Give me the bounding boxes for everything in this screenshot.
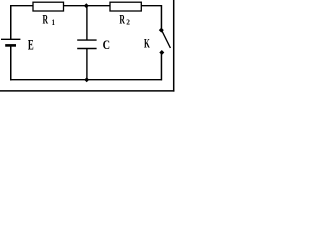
switch K blade [162, 31, 170, 48]
capacitor C bottom plate [77, 48, 96, 50]
wire right upper [160, 5, 162, 30]
wire bottom [10, 79, 162, 81]
svg-text:E: E [28, 36, 34, 53]
svg-text:2: 2 [126, 18, 130, 27]
switch K bottom contact [159, 50, 164, 55]
wire top-right segment [141, 5, 162, 7]
frame right border [173, 0, 175, 92]
switch K top contact [159, 28, 164, 33]
node top junction [84, 3, 89, 8]
resistor R2 [110, 2, 141, 11]
svg-text:C: C [103, 39, 110, 52]
frame bottom border [0, 90, 174, 92]
capacitor C top plate [77, 39, 96, 41]
node bottom junction [84, 77, 89, 82]
svg-text:K: K [144, 38, 150, 52]
resistor R1 [33, 2, 64, 11]
wire capacitor branch lower [86, 49, 88, 80]
wire left lower [10, 45, 12, 80]
svg-text:R: R [42, 14, 48, 27]
wire top-left segment [10, 5, 34, 7]
wire right lower [160, 53, 162, 81]
battery E short plate [5, 44, 16, 47]
wire capacitor branch upper [86, 6, 88, 40]
wire left upper [10, 5, 12, 39]
svg-text:1: 1 [52, 17, 56, 27]
svg-text:R: R [119, 14, 125, 27]
wire top-middle segment [64, 5, 111, 7]
battery E long plate [1, 38, 20, 40]
